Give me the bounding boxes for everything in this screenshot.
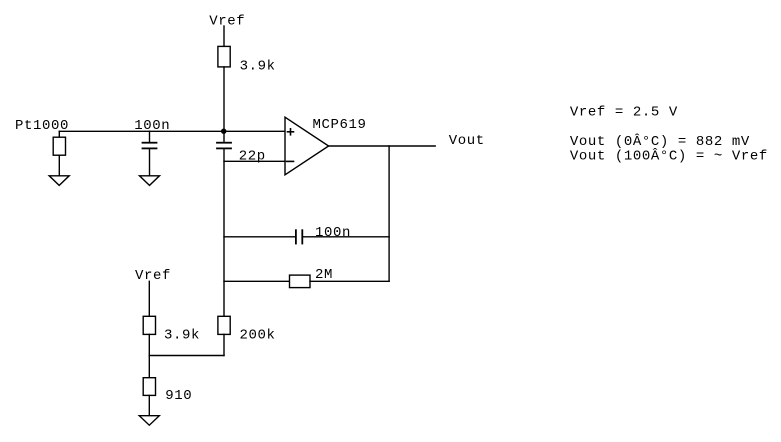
resistor 2M	[290, 275, 311, 288]
op-amp plus sign	[288, 129, 294, 135]
capacitor 100n (input filter)	[143, 143, 157, 149]
wire 100n to ground	[149, 149, 151, 176]
resistor 3.9k (bottom)	[143, 316, 155, 334]
wire 3.9k bottom to node	[148, 334, 150, 355]
capacitor 22p	[217, 143, 231, 149]
wire output net	[329, 145, 436, 147]
svg-text:Vref = 2.5 V: Vref = 2.5 V	[570, 104, 678, 120]
wire Pt1000 stub	[58, 131, 60, 137]
resistor 910	[143, 378, 155, 396]
svg-text:100n: 100n	[315, 225, 351, 241]
svg-text:2M: 2M	[315, 267, 333, 283]
wire feedback cap right	[303, 236, 389, 238]
ground (bottom)	[139, 416, 159, 426]
resistor Pt1000	[53, 137, 65, 155]
capacitor 100n (feedback)	[296, 230, 302, 243]
svg-text:3.9k: 3.9k	[164, 327, 200, 343]
wire feedback cap left	[224, 236, 295, 238]
svg-text:3.9k: 3.9k	[240, 58, 276, 74]
wire 200k bottom stub	[223, 334, 225, 355]
svg-text:Vout: Vout	[449, 133, 485, 149]
wire 910 to ground	[148, 395, 150, 415]
wire node to 910	[148, 356, 150, 378]
resistor 3.9k (top)	[218, 46, 230, 67]
svg-text:Vref: Vref	[135, 268, 171, 284]
op-amp minus sign	[287, 160, 294, 162]
wire feedback vertical	[388, 146, 390, 281]
wire 22p stem	[223, 131, 225, 142]
ground (Pt1000)	[49, 176, 69, 186]
junction dot node A	[221, 129, 226, 134]
wire 3.9k to junction	[223, 67, 225, 131]
wire Vref bottom stub	[148, 281, 150, 316]
wire bottom net	[149, 355, 224, 357]
svg-text:200k: 200k	[240, 327, 276, 343]
resistor 200k	[218, 316, 230, 334]
wire to inverting input	[224, 160, 285, 162]
svg-text:22p: 22p	[239, 148, 266, 164]
svg-text:Vout (100Â°C) = ~ Vref: Vout (100Â°C) = ~ Vref	[570, 146, 768, 164]
svg-text:Pt1000: Pt1000	[15, 118, 69, 134]
wire main input net	[59, 130, 285, 132]
op-amp U1 MCP619	[285, 117, 329, 175]
wire Pt1000 to ground	[58, 155, 60, 176]
wire 100n stem	[149, 131, 151, 142]
svg-text:910: 910	[165, 388, 192, 404]
svg-text:Vref: Vref	[209, 13, 245, 29]
wire 2M right	[310, 280, 389, 282]
wire 2M left	[224, 280, 290, 282]
wire inverting net vertical	[223, 149, 225, 316]
wire Vref top stub	[223, 26, 225, 46]
svg-text:100n: 100n	[134, 118, 170, 134]
ground (100n)	[140, 176, 160, 186]
svg-text:Vout (0Â°C) = 882 mV: Vout (0Â°C) = 882 mV	[570, 132, 750, 150]
svg-text:MCP619: MCP619	[313, 117, 367, 133]
